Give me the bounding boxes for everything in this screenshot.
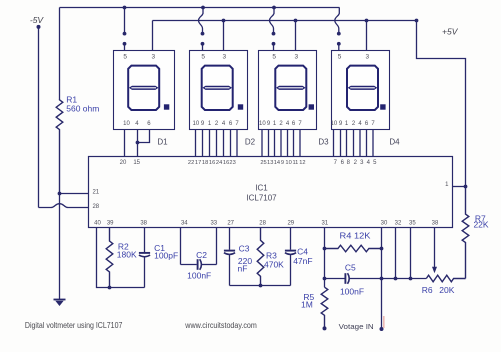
potentiometer R6 <box>426 275 465 282</box>
label R1 value <box>66 95 99 114</box>
svg-text:20K: 20K <box>439 285 454 295</box>
svg-text:1M: 1M <box>301 300 313 310</box>
label display designator D2 <box>245 137 256 146</box>
node pin35 junction <box>409 277 413 281</box>
svg-text:100nF: 100nF <box>340 286 364 296</box>
svg-text:10: 10 <box>123 121 130 127</box>
IC top pin numbers for D3 <box>260 160 305 166</box>
svg-text:IC1: IC1 <box>255 184 268 193</box>
svg-text:38: 38 <box>140 220 147 226</box>
svg-text:40: 40 <box>94 220 101 226</box>
svg-text:22K: 22K <box>473 220 488 230</box>
IC pin 28 number (left) <box>92 204 99 210</box>
svg-text:10: 10 <box>259 121 266 127</box>
svg-text:3: 3 <box>294 54 298 61</box>
display D3 pin 3 label <box>294 54 298 61</box>
node +5V rail junction D4 <box>365 19 369 23</box>
svg-text:10: 10 <box>285 160 291 166</box>
svg-text:34: 34 <box>181 220 188 226</box>
svg-text:13: 13 <box>267 160 273 166</box>
wire +5V to R7 column <box>417 21 466 186</box>
power +5V terminal <box>415 19 459 37</box>
display D4 pin 3 label <box>365 54 369 61</box>
resistor R5 <box>321 287 328 328</box>
ground <box>54 300 66 307</box>
display D4 seven-segment digit <box>347 66 386 110</box>
wire D4 pin-5 feed from top rail end with hop <box>335 8 340 33</box>
capacitor C1 <box>139 228 150 288</box>
wire IC pin 40 down <box>97 228 110 288</box>
svg-text:31: 31 <box>321 220 328 226</box>
svg-text:21: 21 <box>92 190 99 196</box>
node +5V rail junction D2 <box>222 19 226 23</box>
display D1 pin 5 label <box>123 54 127 61</box>
svg-text:22: 22 <box>188 160 194 166</box>
svg-text:C2: C2 <box>196 250 207 260</box>
label display designator D4 <box>389 137 400 146</box>
svg-text:10: 10 <box>331 121 338 127</box>
wire integrator rail (pins 27-28-29) <box>230 285 291 287</box>
display D2 pin 5 label <box>201 54 205 61</box>
wire pin-21 stub <box>60 193 89 195</box>
display D1 body <box>114 51 175 130</box>
node R2 bottom junction <box>108 286 112 290</box>
display D4 bottom pin labels <box>331 121 376 127</box>
IC pin 21 number <box>92 190 99 196</box>
label display designator D1 <box>157 137 168 146</box>
node D4 feed upper dot <box>337 32 341 36</box>
node D2 feed upper dot <box>201 32 205 36</box>
wire pin-28 stub with hop over ground line <box>39 204 89 208</box>
svg-text:560 ohm: 560 ohm <box>66 104 99 114</box>
svg-text:3: 3 <box>222 54 226 61</box>
label C3 value <box>238 244 253 274</box>
wire IC pin 38 to R6 wiper <box>432 228 437 274</box>
IC U1 ICL7107 body <box>89 157 453 228</box>
svg-text:16: 16 <box>223 160 229 166</box>
resistor R7 <box>462 187 469 279</box>
resistor R4 <box>325 245 382 252</box>
svg-text:25: 25 <box>260 160 266 166</box>
display D2 body <box>190 51 248 130</box>
svg-text:nF: nF <box>238 264 248 274</box>
svg-text:38: 38 <box>432 220 439 226</box>
svg-text:5: 5 <box>201 54 205 61</box>
svg-text:D3: D3 <box>318 137 329 146</box>
svg-text:30: 30 <box>381 220 388 226</box>
node +5V rail junction D3 <box>294 19 298 23</box>
wire D1 pin10 to IC pin20 <box>124 130 126 157</box>
capacitor C4 <box>285 228 296 286</box>
wire D1 pin6 jog to pin4 line <box>138 130 150 143</box>
svg-text:27: 27 <box>227 220 234 226</box>
svg-text:28: 28 <box>259 220 266 226</box>
node D4 feed lower dot <box>337 42 341 51</box>
svg-text:5: 5 <box>272 54 276 61</box>
wire D2 pin-3 feed <box>223 21 225 51</box>
svg-text:ICL7107: ICL7107 <box>246 194 277 203</box>
label R4 value <box>340 231 371 241</box>
node pin21 junction <box>58 192 62 196</box>
svg-text:100nF: 100nF <box>187 271 211 281</box>
wire D4 pin-3 feed <box>366 21 368 51</box>
capacitor C2 <box>181 259 217 270</box>
svg-text:35: 35 <box>409 220 416 226</box>
label C4 value <box>293 247 312 266</box>
svg-text:47nF: 47nF <box>293 256 312 266</box>
display D1 seven-segment digit <box>128 66 169 110</box>
svg-text:3: 3 <box>365 54 369 61</box>
node R5 input terminal <box>323 326 327 330</box>
display D2 bottom pin labels <box>193 121 240 127</box>
wire IC pin 32 down <box>395 228 397 279</box>
display D2 seven-segment digit <box>202 66 244 110</box>
svg-text:Digital voltmeter using ICL710: Digital voltmeter using ICL7107 <box>25 321 123 330</box>
svg-text:D1: D1 <box>157 137 168 146</box>
label C2 value <box>187 250 211 281</box>
node D1 feed lower dot <box>123 42 127 51</box>
svg-text:C5: C5 <box>345 263 356 273</box>
wire top rail (display digit-select bus, y=7) <box>60 7 340 9</box>
svg-text:R4 12K: R4 12K <box>340 231 371 241</box>
label IC1 name <box>246 184 277 203</box>
display D3 pin 5 label <box>272 54 276 61</box>
node D1 pin4/pin6 junction <box>136 141 140 145</box>
wire D3 pin-3 feed <box>295 21 297 51</box>
svg-text:D2: D2 <box>245 137 256 146</box>
svg-text:29: 29 <box>287 220 294 226</box>
svg-text:15: 15 <box>133 160 140 166</box>
svg-text:5: 5 <box>123 54 127 61</box>
wire IC pin 30 down to input terminal <box>381 228 383 330</box>
svg-text:12: 12 <box>299 160 305 166</box>
wire IC pin 34 down <box>180 228 182 265</box>
svg-text:39: 39 <box>107 220 114 226</box>
label C5 value <box>340 263 364 297</box>
wire +5V rail left end to D1 pin 3 <box>152 21 154 51</box>
label caption title <box>25 321 123 330</box>
svg-text:D4: D4 <box>389 137 400 146</box>
svg-text:C3: C3 <box>239 244 250 254</box>
resistor R2 <box>106 228 113 288</box>
node D1 feed upper dot <box>123 32 127 36</box>
label caption website <box>184 321 257 330</box>
display D3 seven-segment digit <box>275 66 314 110</box>
svg-text:33: 33 <box>210 220 217 226</box>
resistor R3 <box>257 228 264 286</box>
node D3 feed upper dot <box>272 32 276 36</box>
node pin31/C5 junction <box>323 277 327 281</box>
label Votage IN <box>339 322 374 331</box>
svg-text:+5V: +5V <box>442 27 459 37</box>
wire D2 segment bus to IC <box>196 130 238 157</box>
label R7 value <box>473 214 488 230</box>
svg-text:www.circuitstoday.com: www.circuitstoday.com <box>184 321 257 330</box>
display D3 body <box>259 51 317 130</box>
wire reference rail to R6 <box>382 278 427 280</box>
svg-text:180K: 180K <box>117 249 137 259</box>
wire IC pin 1 stub <box>453 186 466 188</box>
svg-text:18: 18 <box>202 160 208 166</box>
wire IC pin 35 down <box>410 228 412 279</box>
display D2 pin 3 label <box>222 54 226 61</box>
node D3 feed lower dot <box>272 42 276 51</box>
svg-text:28: 28 <box>92 204 99 210</box>
wire ground line lower part <box>59 194 61 300</box>
wire +5V rail (y=20.7) <box>153 20 417 22</box>
svg-text:23: 23 <box>229 160 235 166</box>
capacitor C3 <box>224 228 235 286</box>
svg-text:20: 20 <box>120 160 127 166</box>
label R3 value <box>264 251 284 270</box>
display D4 body <box>332 51 390 130</box>
label display designator D3 <box>318 137 329 146</box>
svg-text:9: 9 <box>281 160 284 166</box>
svg-text:24: 24 <box>216 160 222 166</box>
wire R7 bottom to R6 right end <box>465 278 466 280</box>
node top-rail junction D2 <box>201 6 205 10</box>
svg-text:32: 32 <box>395 220 402 226</box>
wire IC pin 33 down <box>216 228 218 265</box>
wire D2 pin-5 feed with hop over +5V rail <box>199 8 204 33</box>
svg-text:470K: 470K <box>264 260 284 270</box>
label R2 value <box>117 242 137 260</box>
IC pin 1 number <box>445 182 449 188</box>
capacitor C5 <box>325 273 382 284</box>
label R5 value <box>301 292 315 310</box>
node pin32 junction <box>394 277 398 281</box>
display D1 bottom pin labels <box>123 121 151 127</box>
IC top pin numbers for D2 <box>188 160 236 166</box>
svg-text:Votage IN: Votage IN <box>339 322 374 331</box>
node voltage input terminal <box>380 327 384 331</box>
node pin30/C5 junction <box>380 277 384 281</box>
svg-text:11: 11 <box>292 160 298 166</box>
node R3 bottom junction <box>259 284 263 288</box>
IC top pin numbers for D4 <box>334 160 378 166</box>
svg-text:16: 16 <box>209 160 215 166</box>
IC bottom pin numbers <box>94 220 439 226</box>
node pin31/R4 junction <box>323 247 327 251</box>
wire D1 pin-5 feed <box>124 8 126 33</box>
wire IC pin 31 down <box>324 228 326 288</box>
svg-text:100pF: 100pF <box>154 250 178 260</box>
wire D1 pin4 down <box>137 130 139 157</box>
label R6 value <box>422 285 455 295</box>
svg-text:14: 14 <box>274 160 280 166</box>
power -5V terminal <box>30 15 45 29</box>
wire analog rail (pins 40-39-38) <box>110 287 145 289</box>
resistor R1 <box>56 100 63 194</box>
svg-text:10: 10 <box>193 121 200 127</box>
svg-text:R6: R6 <box>422 285 433 295</box>
svg-text:5: 5 <box>338 54 342 61</box>
display D3 bottom pin labels <box>259 121 302 127</box>
wire top rail left end down (ground line upper part) <box>59 8 61 100</box>
node D2 feed lower dot <box>201 42 205 51</box>
wire D3 pin-5 feed with hop over +5V rail <box>270 8 275 33</box>
node top-rail junction D1 <box>123 6 127 10</box>
node pin30/R4 junction <box>380 247 384 251</box>
node top-rail junction D3 <box>272 6 276 10</box>
wire D3 segment bus to IC <box>262 130 300 157</box>
wire D4 segment bus to IC <box>334 130 374 157</box>
svg-text:3: 3 <box>151 54 155 61</box>
svg-text:17: 17 <box>195 160 201 166</box>
node pin1/R7 junction <box>464 185 468 189</box>
IC top pin numbers 20 15 <box>120 160 141 166</box>
display D1 pin 3 label <box>151 54 155 61</box>
svg-text:-5V: -5V <box>30 15 45 25</box>
display D4 pin 5 label <box>338 54 342 61</box>
wire -5V vertical down to pin 28 row <box>38 27 40 208</box>
input marker artifact <box>383 316 385 328</box>
label C1 value <box>154 243 178 260</box>
